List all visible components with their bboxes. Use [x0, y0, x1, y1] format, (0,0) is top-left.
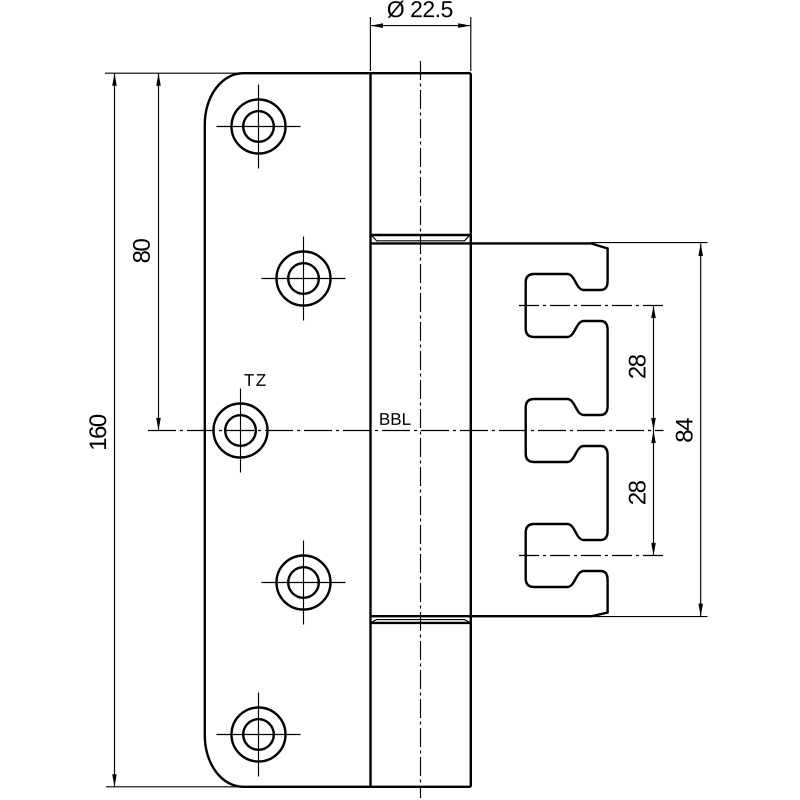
dimension 28 upper bottom arrow — [651, 418, 656, 431]
dimension 80 text — [133, 239, 150, 262]
screw hole 5 — [217, 693, 301, 777]
dimension 84 text — [676, 418, 693, 441]
dimension 28 upper line — [653, 306, 655, 431]
screw hole 1 — [217, 85, 301, 169]
dimension Ø22.5 text — [388, 1, 453, 18]
dimension 160 line — [114, 73, 116, 787]
dimension 80 bottom arrow — [156, 418, 161, 431]
label BBL — [380, 413, 410, 425]
top knuckle bottom edge — [371, 234, 471, 236]
upper slot centerline — [519, 305, 664, 307]
bottom knuckle chamfer line — [372, 620, 469, 623]
frame leaf outline with comb slots — [371, 243, 608, 616]
dimension 28 lower bottom arrow — [651, 543, 656, 556]
top knuckle chamfer line — [372, 236, 469, 241]
dimension 28 upper top arrow — [651, 306, 656, 319]
bottom knuckle top edge — [371, 622, 471, 624]
dimension 84 line — [700, 243, 702, 616]
label TZ — [244, 374, 265, 386]
screw hole 2 — [262, 237, 346, 321]
dimension 80 line — [158, 73, 160, 430]
dimension Ø22.5 right arrow — [458, 23, 471, 28]
dimension 28 lower line — [653, 431, 655, 556]
dimension 160 bottom arrow — [112, 774, 117, 787]
dimension 28 lower top arrow — [651, 431, 656, 444]
dimension 160 extension lines — [105, 73, 250, 787]
screw hole 4 — [262, 541, 346, 625]
dimension 84 top arrow — [698, 243, 703, 256]
dimension 160 text — [89, 415, 106, 449]
vertical hinge-pin centerline — [420, 61, 422, 798]
horizontal main centerline BBL — [148, 430, 664, 432]
dimension 84 extension lines — [591, 243, 708, 617]
dimension 28 lower text — [629, 481, 646, 504]
dimension 160 top arrow — [112, 73, 117, 86]
door leaf plate outline — [205, 73, 471, 787]
barrel right edge — [470, 73, 472, 787]
dimension 28 upper text — [629, 355, 646, 378]
dimension 84 bottom arrow — [698, 604, 703, 617]
lower slot centerline — [519, 555, 664, 557]
barrel left edge — [369, 73, 371, 787]
screw hole 3 (TZ) — [214, 389, 268, 473]
dimension 80 top arrow — [156, 73, 161, 86]
dimension Ø22.5 extension lines — [370, 17, 470, 71]
dimension Ø22.5 left arrow — [370, 23, 383, 28]
dimension Ø22.5 line — [370, 25, 470, 27]
